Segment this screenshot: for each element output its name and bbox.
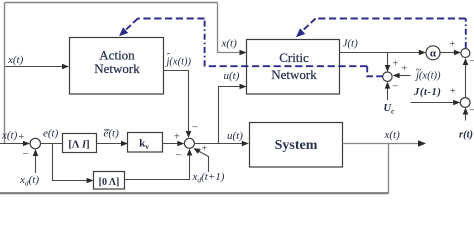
- svg-text:−: −: [469, 56, 474, 68]
- wire: J(t-1) into bottom-right sum: [411, 102, 456, 104]
- svg-text:J(t): J(t): [343, 38, 359, 50]
- svg-text:u(t): u(t): [224, 70, 240, 82]
- wire: feedback frame left vertical: [4, 3, 6, 144]
- op block: kv gain: [128, 133, 163, 153]
- op block: System: [250, 123, 343, 168]
- svg-text:x(t): x(t): [7, 54, 24, 66]
- blue arrow into action top: [119, 27, 128, 36]
- svg-text:u(t): u(t): [227, 130, 243, 142]
- node: tracking error sum circle: [30, 138, 40, 148]
- svg-text:System: System: [275, 138, 318, 153]
- op block: Action Network U-action: [70, 38, 164, 95]
- svg-text:e(t): e(t): [43, 128, 59, 140]
- wire: r(t) into bottom-right sum: [465, 113, 467, 121]
- wire: Uc into error sum: [387, 87, 389, 100]
- wire: system output branch down: [388, 144, 390, 194]
- wire: J(t) from critic to alpha: [340, 52, 421, 54]
- svg-text:α: α: [430, 48, 437, 60]
- svg-text:+: +: [450, 39, 456, 50]
- blue path: actor training signal from error sum: [367, 66, 383, 76]
- svg-text:e(t): e(t): [104, 128, 120, 140]
- arrow into critic x(t): [240, 50, 247, 56]
- svg-text:r(t): r(t): [459, 130, 473, 141]
- wire: 0-Lambda out up into control sum: [125, 154, 190, 180]
- svg-text:Critic: Critic: [279, 50, 309, 65]
- wire: e(t) to Lambda-I block: [41, 143, 63, 145]
- op amp: alpha gain circle: [426, 46, 440, 60]
- wire: u(t) into critic: [219, 87, 242, 144]
- wire: feedback bottom line: [0, 192, 389, 194]
- svg-text:+: +: [450, 86, 456, 97]
- svg-text:J(t-1): J(t-1): [413, 87, 442, 98]
- blue arrow into critic top: [296, 28, 305, 37]
- node: top-right summation circle: [461, 49, 470, 58]
- svg-text:−: −: [392, 81, 398, 93]
- wire: kv out to control sum: [163, 143, 180, 145]
- svg-text:−: −: [192, 122, 198, 134]
- op block: [Lambda I]: [63, 134, 97, 153]
- wire: e branch down to 0-Lambda block: [53, 144, 89, 181]
- svg-text:ˆ: ˆ: [167, 52, 171, 64]
- wire: x(t) into tracking sum: [0, 143, 25, 145]
- svg-text:+: +: [174, 132, 180, 143]
- svg-text:−: −: [23, 148, 29, 160]
- wire: bottom sum up to top sum: [465, 64, 467, 98]
- svg-text:xd(t): xd(t): [19, 174, 39, 188]
- svg-text:[Λ I]: [Λ I]: [68, 140, 89, 151]
- wire: x(t) drop to critic input: [218, 3, 243, 53]
- wire: e-bar(t) to kv: [97, 143, 123, 145]
- svg-text:−: −: [176, 150, 182, 162]
- svg-text:x(t): x(t): [384, 129, 401, 141]
- wire: J(t) branch down to error sum: [387, 53, 389, 68]
- svg-text:~: ~: [416, 65, 422, 76]
- svg-text:Network: Network: [94, 61, 140, 76]
- svg-text:+: +: [402, 64, 408, 75]
- wire: alpha to right sum: [440, 52, 456, 54]
- wire: u(t) from control sum to system: [195, 143, 244, 145]
- wire: xd(t) up into tracking sum: [35, 154, 37, 173]
- op block: [0 Lambda]: [94, 172, 125, 190]
- blue path: critic training signal (top right): [465, 19, 467, 49]
- svg-text:[0 Λ]: [0 Λ]: [99, 177, 120, 188]
- svg-text:−: −: [469, 105, 474, 117]
- wire: xd(t+1) diagonal into control sum: [197, 150, 209, 172]
- node: prediction error sum circle: [383, 72, 392, 81]
- svg-text:+: +: [393, 59, 399, 70]
- node: bottom-right summation circle: [460, 98, 470, 108]
- wire: j-tilde into error sum: [398, 75, 411, 77]
- svg-text:x(t): x(t): [221, 38, 238, 50]
- wire: feedback frame top: [5, 2, 218, 4]
- svg-text:x(t): x(t): [1, 130, 18, 142]
- svg-text:xd(t+1): xd(t+1): [192, 171, 225, 185]
- wire: action output j-hat down to control sum: [164, 71, 189, 134]
- svg-text:+: +: [19, 132, 25, 143]
- node: control summation circle: [184, 138, 194, 148]
- svg-text:Network: Network: [271, 67, 317, 82]
- op block: Critic Network: [247, 40, 340, 95]
- wire: x(t) into action network: [5, 66, 64, 68]
- wire: x(t) system output: [343, 143, 420, 145]
